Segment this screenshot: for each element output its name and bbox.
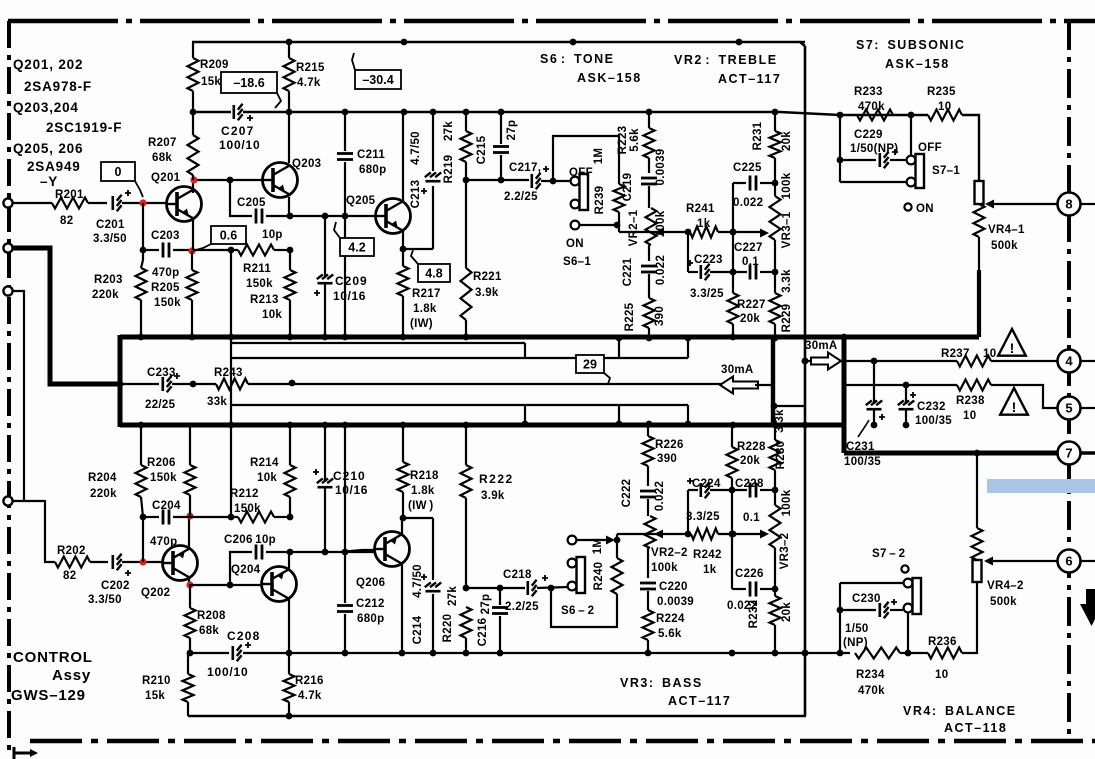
label R236 10 xyxy=(928,636,957,681)
node rail B x805 xyxy=(802,422,809,429)
switch S7-2 pos O xyxy=(901,565,908,572)
label R237 10 xyxy=(941,348,996,360)
svg-text:Q206: Q206 xyxy=(356,577,385,589)
label Q201,202 2SA978-F xyxy=(13,57,92,94)
arrow R240 junction xyxy=(606,536,615,545)
wire C202 to Q202 xyxy=(122,561,163,563)
wire crossband y358 xyxy=(231,357,688,359)
resistor R208 xyxy=(185,608,196,638)
label C231 100/35 xyxy=(844,420,881,468)
node rail A x290 xyxy=(287,334,294,341)
wire VR2-2 wiper feed xyxy=(617,533,658,535)
svg-text:VR2 : TREBLE: VR2 : TREBLE xyxy=(674,53,778,67)
svg-text:100/10: 100/10 xyxy=(219,138,261,152)
svg-text:150k: 150k xyxy=(246,278,273,290)
capacitor C225 xyxy=(750,176,756,191)
capacitor C215 xyxy=(493,147,509,153)
svg-text:R238: R238 xyxy=(956,395,985,407)
label R222 3.9k xyxy=(479,472,514,502)
svg-text:0.022: 0.022 xyxy=(654,481,666,511)
label R213 10k xyxy=(250,294,282,321)
connector 5 xyxy=(1058,397,1081,420)
wire conn 7 stub xyxy=(1081,451,1095,455)
capacitor C205 xyxy=(256,209,262,224)
label VR4: BALANCE ACT-118 xyxy=(903,704,1017,735)
svg-text:390: 390 xyxy=(657,453,677,465)
label C227 0.1 xyxy=(734,242,763,268)
node rail B x325 xyxy=(322,422,329,429)
svg-text:C211: C211 xyxy=(357,149,385,161)
label C207 100/10 xyxy=(219,124,261,152)
wire mid vertical x231 xyxy=(230,250,232,517)
wire C206 elbow xyxy=(230,552,252,585)
node rail B x345 xyxy=(342,422,349,429)
capacitor C228 xyxy=(750,483,756,498)
node S7 left xyxy=(837,112,844,119)
svg-text:C208: C208 xyxy=(227,629,261,643)
resistor R234 xyxy=(855,648,900,659)
wire R234 to R236 xyxy=(900,652,928,654)
svg-text:82: 82 xyxy=(60,215,73,227)
label Q204 xyxy=(231,564,261,576)
label C225 0.022 xyxy=(733,162,763,209)
label R234 470k xyxy=(856,669,885,697)
svg-text:3.3/50: 3.3/50 xyxy=(88,594,122,606)
capacitor C231 xyxy=(866,400,885,420)
potentiometer VR3-2 xyxy=(770,505,781,548)
label R239 1M (rot) xyxy=(593,148,606,215)
svg-text:4: 4 xyxy=(1065,354,1073,369)
resistor R206 xyxy=(185,465,196,495)
wire R237 to conn 4 xyxy=(991,360,1057,362)
capacitor C214 xyxy=(421,574,441,591)
svg-text:Q204: Q204 xyxy=(231,564,261,576)
label R218 1.8k (1W) xyxy=(408,470,439,512)
wire R241 right xyxy=(718,231,760,233)
svg-text:S6 : TONE: S6 : TONE xyxy=(540,52,615,66)
capacitor C218 xyxy=(528,575,548,596)
wire x619 to rail B xyxy=(618,405,620,424)
svg-text:C214: C214 xyxy=(412,615,424,644)
rail1 top supply wire xyxy=(192,41,805,44)
resistor R235 xyxy=(928,110,962,121)
svg-text:1.8k: 1.8k xyxy=(413,303,437,315)
tone box corner xyxy=(800,42,805,46)
wire R222 top xyxy=(465,425,467,465)
svg-text:20k: 20k xyxy=(740,313,760,325)
wire C218 left xyxy=(466,587,525,589)
wire C204 right xyxy=(173,516,190,518)
arrow VR3-1 wiper xyxy=(760,229,769,238)
node C217 wire x466 xyxy=(463,177,470,184)
node Q201 collector (red) xyxy=(190,176,197,183)
svg-text:220k: 220k xyxy=(92,289,119,301)
label S7-2 xyxy=(872,548,905,560)
callout -18.6 xyxy=(221,72,281,108)
resistor R232 xyxy=(770,596,781,625)
svg-text:VR3–2: VR3–2 xyxy=(779,533,791,570)
wire R204 top xyxy=(140,425,142,465)
wire R211 right xyxy=(274,249,290,251)
svg-text:C216: C216 xyxy=(477,618,489,647)
label C214 4.7/50 (rot) xyxy=(412,564,424,644)
capacitor C201 xyxy=(113,190,131,211)
wire S7-2 left vert xyxy=(839,583,841,653)
svg-text:R231: R231 xyxy=(752,121,764,150)
capacitor C206 xyxy=(256,545,262,560)
svg-text:Q202: Q202 xyxy=(141,587,170,599)
node R240 top xyxy=(614,537,621,544)
capacitor C222 xyxy=(640,491,656,497)
input terminal L xyxy=(3,198,12,207)
transistor Q203 xyxy=(263,163,298,198)
node input Q202 (red) xyxy=(139,558,146,565)
wire C214 elbow xyxy=(403,517,433,519)
label VR4-2 500k xyxy=(987,580,1024,608)
label R221 3.9k xyxy=(473,271,502,299)
svg-text:C233: C233 xyxy=(147,367,176,379)
wire R212 right xyxy=(274,516,290,518)
wire R226 to C222 xyxy=(647,466,649,486)
wire Q206 base xyxy=(340,550,374,552)
label R227 20k xyxy=(737,299,766,325)
label C232 100/35 xyxy=(915,401,952,427)
wire conn 6 stub xyxy=(1081,560,1095,562)
wire C231 bottom seg xyxy=(873,410,875,425)
svg-text:–Y: –Y xyxy=(40,174,58,189)
callout 29 xyxy=(576,355,610,384)
wire C232 bottom seg xyxy=(905,410,907,425)
svg-text:CONTROL: CONTROL xyxy=(13,649,93,666)
wire VR3-2 col top xyxy=(774,425,776,440)
svg-text:220k: 220k xyxy=(90,488,117,500)
svg-text:27k: 27k xyxy=(447,586,459,606)
switch S7-1 contact bottom xyxy=(907,178,916,187)
label C228 0.1 xyxy=(735,478,764,524)
svg-text:100/10: 100/10 xyxy=(207,665,249,679)
svg-text:1k: 1k xyxy=(703,564,717,576)
label C223 3.3/25 xyxy=(690,254,724,300)
label R225 390 (rot) xyxy=(624,302,666,331)
svg-text:150k: 150k xyxy=(150,472,177,484)
svg-text:R203: R203 xyxy=(94,274,123,286)
node rail A x403 xyxy=(400,334,407,341)
svg-text:C202: C202 xyxy=(101,580,130,592)
svg-text:C201: C201 xyxy=(96,219,125,231)
svg-text:R229: R229 xyxy=(781,304,793,333)
svg-text:R213: R213 xyxy=(250,294,279,306)
signal line y653 xyxy=(243,652,850,654)
node rail B x775 xyxy=(772,422,779,429)
warning triangle 2 xyxy=(1000,388,1028,415)
capacitor C230 xyxy=(880,599,897,618)
border right (dash-dot) xyxy=(1067,21,1071,741)
label C210 10/16 xyxy=(333,469,368,497)
svg-text:R208: R208 xyxy=(197,610,226,622)
wire VR3-2 to R232 xyxy=(774,548,776,596)
node R212 left x231 xyxy=(228,514,235,521)
node rail2 x345 xyxy=(342,109,349,116)
label C205 xyxy=(237,197,266,209)
node VR3-1 top tap xyxy=(772,180,779,187)
capacitor C204 xyxy=(163,510,169,525)
wire C212 col to rail B xyxy=(344,425,346,552)
resistor R229 xyxy=(770,293,781,324)
resistor R223 xyxy=(644,128,655,158)
wire C201 to Q201 xyxy=(122,202,167,204)
svg-text:68k: 68k xyxy=(152,152,172,164)
resistor R233 xyxy=(857,110,893,121)
svg-text:VR3–1: VR3–1 xyxy=(781,211,793,248)
node rail1 x405 xyxy=(401,39,408,46)
node rail B x141 xyxy=(138,422,145,429)
svg-text:C213: C213 xyxy=(410,180,422,209)
svg-text:3.3/50: 3.3/50 xyxy=(93,233,127,245)
svg-text:R221: R221 xyxy=(473,271,502,283)
svg-text:C203: C203 xyxy=(151,230,180,242)
node rail2 x775 xyxy=(772,109,779,116)
node C210 bottom xyxy=(322,549,329,556)
capacitor C211 xyxy=(337,154,353,160)
node y653 x840 xyxy=(837,650,844,657)
label R238 10 xyxy=(956,395,985,422)
label Q203 xyxy=(292,158,321,170)
bus vertical x844 xyxy=(842,335,847,453)
svg-text:Q205: Q205 xyxy=(346,195,376,207)
wire C222 to VR2-2 xyxy=(647,499,649,516)
wire R210 bottom xyxy=(187,702,189,716)
label C208 100/10 xyxy=(207,629,261,679)
label C201 3.3/50 xyxy=(93,219,127,245)
node Q202 emitter (red) xyxy=(186,512,193,519)
svg-text:3.3/25: 3.3/25 xyxy=(686,511,720,523)
svg-text:VR4–1: VR4–1 xyxy=(988,224,1025,236)
wire R203 top xyxy=(141,250,143,268)
wire C212 top xyxy=(344,552,346,603)
svg-text:20k: 20k xyxy=(781,602,793,622)
arrow VR2-2 wiper xyxy=(654,530,663,539)
svg-text:2.2/25: 2.2/25 xyxy=(505,601,539,613)
wire R218 top xyxy=(402,425,404,462)
wire Q204 collector xyxy=(288,599,290,653)
resistor R207 xyxy=(188,135,199,175)
label VR4-1 500k xyxy=(988,224,1025,252)
svg-text:C225: C225 xyxy=(733,162,762,174)
wire C211 bottom xyxy=(344,162,346,216)
svg-text:S6 – 2: S6 – 2 xyxy=(561,605,594,617)
wire 30mA right xyxy=(806,360,846,362)
wire VR4-2 wiper to conn 6 xyxy=(986,560,1057,562)
wire Q201 collector xyxy=(193,180,262,193)
resistor R210 xyxy=(183,674,194,702)
label VR2: TREBLE ACT-117 xyxy=(674,53,781,86)
node y653 x805 xyxy=(802,650,809,657)
connector 6 xyxy=(1058,550,1081,573)
wire C213 elbow xyxy=(403,248,433,250)
wire R201 to C201 xyxy=(88,202,107,204)
wire R209 top xyxy=(192,42,194,58)
node C205 tap xyxy=(227,177,234,184)
wire conn 8 stub xyxy=(1081,203,1095,205)
capacitor C221 xyxy=(641,266,657,272)
wire R206 top xyxy=(189,425,191,465)
svg-text:100k: 100k xyxy=(781,489,793,516)
label S6-2 xyxy=(561,605,594,617)
input terminal R xyxy=(3,496,12,505)
label CONTROL Assy GWS-129 xyxy=(11,649,93,704)
potentiometer VR4-1 plate xyxy=(975,181,984,204)
label Q205 xyxy=(346,195,376,207)
svg-text:0.1: 0.1 xyxy=(743,512,760,524)
svg-text:Q203,204: Q203,204 xyxy=(13,100,79,115)
svg-text:20k: 20k xyxy=(740,455,760,467)
transistor Q201 xyxy=(167,187,202,222)
node rail2 x404 xyxy=(401,109,408,116)
svg-text:R215: R215 xyxy=(296,62,325,74)
wire Q206 collector xyxy=(401,564,403,653)
wire VR2-1 to C221 xyxy=(648,245,650,261)
wire VR2-2 to C220 xyxy=(647,548,649,578)
label C204 470p xyxy=(150,536,177,548)
node rail A x733 xyxy=(730,334,737,341)
wire C227 right xyxy=(760,271,775,273)
transistor Q206 xyxy=(375,532,410,567)
label C217 2.2/25 xyxy=(504,162,541,203)
corner mark bottom-left xyxy=(14,747,38,759)
svg-text:–30.4: –30.4 xyxy=(362,73,393,87)
svg-text:27k: 27k xyxy=(443,121,455,141)
label R231 20k (rot) xyxy=(752,121,793,151)
wire tone col bot top xyxy=(647,425,649,436)
label R240 1M (rot) xyxy=(592,538,605,591)
node R239 mid xyxy=(614,222,621,229)
callout 0 (DC voltage) xyxy=(101,162,143,197)
svg-text:100/35: 100/35 xyxy=(844,456,881,468)
node S6-1 feed xyxy=(550,178,557,185)
wire R229 bottom xyxy=(774,324,776,338)
svg-text:C227: C227 xyxy=(734,242,763,254)
resistor R219 xyxy=(461,131,472,162)
svg-text:C224: C224 xyxy=(692,478,721,490)
node rail A x619 xyxy=(616,335,623,342)
node rail2 x466 xyxy=(463,109,470,116)
wire C212 bottom xyxy=(344,614,346,653)
wire C205 right xyxy=(266,215,376,217)
wire C220 to R224 xyxy=(647,591,649,610)
label Q206 xyxy=(356,577,385,589)
svg-text:470p: 470p xyxy=(152,267,179,279)
svg-text:R207: R207 xyxy=(148,137,177,149)
svg-text:R219: R219 xyxy=(443,155,455,184)
wire R210 top xyxy=(187,653,189,674)
label C215 (rot) xyxy=(476,135,488,164)
svg-text:R240: R240 xyxy=(593,562,605,591)
svg-text:R204: R204 xyxy=(88,472,117,484)
wire R237 line xyxy=(844,360,957,362)
label Q202 xyxy=(141,587,170,599)
wire R216 top xyxy=(288,653,290,674)
capacitor C224 xyxy=(687,478,710,498)
label C203 470p xyxy=(152,267,179,279)
wire R224 bottom xyxy=(647,640,649,653)
svg-text:4.7/50: 4.7/50 xyxy=(410,131,422,165)
wire R220 bottom xyxy=(465,638,467,653)
wire R217 top xyxy=(402,249,404,266)
wire feedback right xyxy=(755,384,773,386)
wire input node up xyxy=(142,517,144,562)
capacitor C209 xyxy=(314,274,333,296)
svg-text:15k: 15k xyxy=(145,690,165,702)
potentiometer VR4-2 plate xyxy=(973,560,982,582)
node y653 x466 xyxy=(463,650,470,657)
wire R219 bottom xyxy=(465,162,467,180)
svg-text:C230: C230 xyxy=(852,593,881,605)
switch S7-1 contact top xyxy=(907,156,916,165)
svg-text:C218: C218 xyxy=(503,569,532,581)
label C215 27p (rot) xyxy=(506,120,518,141)
label R241 1k xyxy=(686,203,715,230)
svg-text:10: 10 xyxy=(938,101,951,113)
node rail A x231 xyxy=(228,334,235,341)
node C231 rail B xyxy=(871,422,878,429)
wire C204 wire xyxy=(143,516,159,518)
label R233 470k xyxy=(854,86,885,113)
wire R215 top xyxy=(288,42,290,58)
wire VR3-1 to R229 xyxy=(774,240,776,293)
resistor R236 xyxy=(928,648,962,659)
label C226 0.022 xyxy=(727,568,764,612)
wire C228 right xyxy=(760,489,775,491)
wire C229 left xyxy=(840,159,876,161)
signal line y653 left xyxy=(190,652,229,654)
wire C217 left xyxy=(466,179,529,181)
node x732 C228 xyxy=(729,487,736,494)
node rail B x403 xyxy=(400,422,407,429)
tone box right edge xyxy=(804,46,807,716)
node y406 x775 xyxy=(771,403,778,410)
wire C224 right xyxy=(710,489,747,491)
wire C215 top xyxy=(500,112,502,144)
svg-text:ACT–118: ACT–118 xyxy=(944,721,1007,735)
label R209 15k xyxy=(200,59,229,88)
node rail B x619 xyxy=(616,421,623,428)
wire C225 branch xyxy=(733,182,746,184)
svg-text:C204: C204 xyxy=(152,500,181,512)
label R201 82 xyxy=(55,189,84,227)
wire R222 bottom xyxy=(465,498,467,588)
svg-text:3.3k: 3.3k xyxy=(781,269,793,293)
arrow VR3-2 wiper xyxy=(760,530,769,539)
wire Q206 emitter xyxy=(401,518,403,535)
label R235 10 xyxy=(927,86,956,113)
node C203 left xyxy=(140,247,147,254)
bus vertical x773 xyxy=(771,337,775,425)
wire x732 branch col xyxy=(731,478,733,589)
svg-text:680p: 680p xyxy=(357,613,384,625)
svg-text:R230: R230 xyxy=(775,441,787,470)
wire Q203 collector xyxy=(288,112,290,163)
ground bus from terminal xyxy=(12,248,120,384)
wire R232 bottom xyxy=(774,625,776,653)
wire R239 bottom xyxy=(618,212,620,232)
label VR3-1 100k (rot) xyxy=(781,172,793,248)
resistor R239 xyxy=(614,184,625,212)
capacitor C226 xyxy=(750,582,756,597)
svg-text:0.022: 0.022 xyxy=(733,197,763,209)
label C230 1/50 (NP) xyxy=(843,593,881,649)
node y653 x775 xyxy=(772,650,779,657)
ground bus rail A xyxy=(120,335,979,340)
